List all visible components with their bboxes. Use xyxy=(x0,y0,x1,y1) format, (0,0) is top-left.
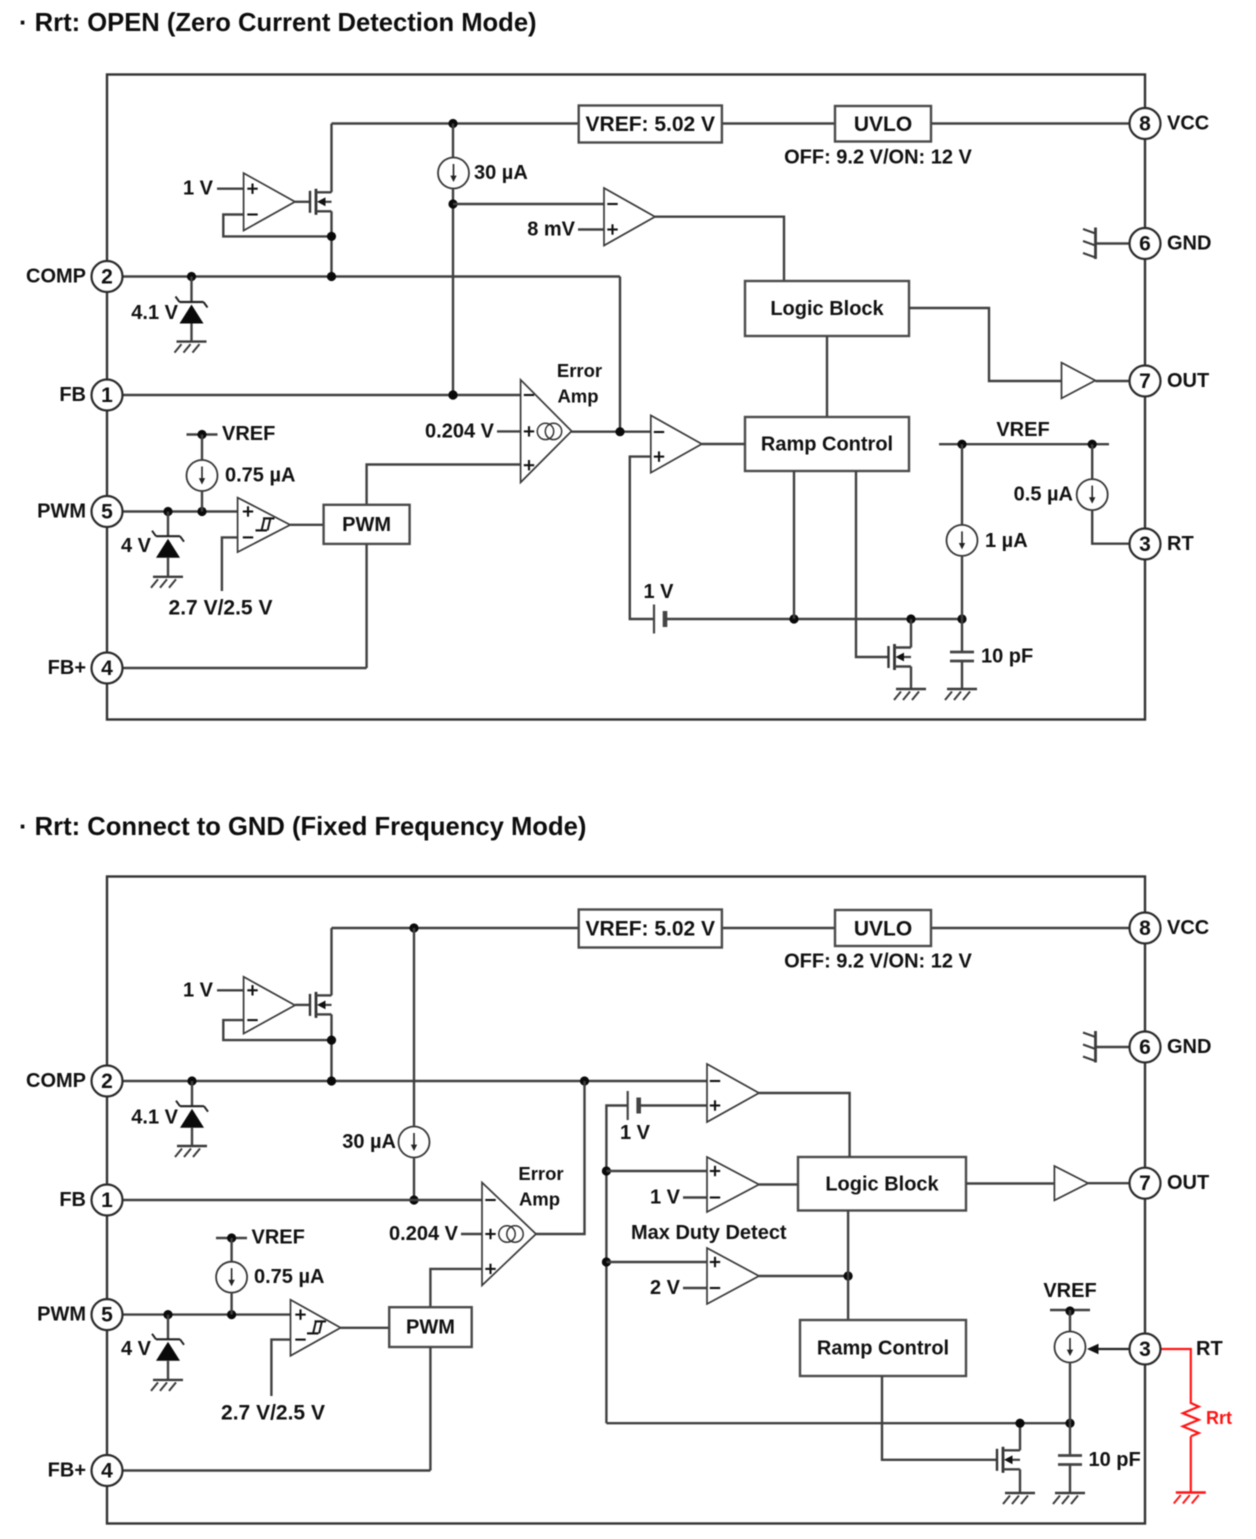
svg-text:2: 2 xyxy=(101,266,113,289)
svg-text:5: 5 xyxy=(101,1304,113,1327)
svg-text:PWM: PWM xyxy=(37,1304,86,1326)
svg-text:4 V: 4 V xyxy=(121,535,152,557)
svg-text:0.204 V: 0.204 V xyxy=(389,1223,459,1245)
svg-text:2.7 V/2.5 V: 2.7 V/2.5 V xyxy=(221,1402,325,1425)
svg-text:1 V: 1 V xyxy=(650,1187,681,1209)
svg-text:PWM: PWM xyxy=(406,1317,455,1339)
svg-text:3: 3 xyxy=(1139,533,1151,556)
svg-text:Amp: Amp xyxy=(519,1189,560,1210)
svg-text:VCC: VCC xyxy=(1167,113,1209,135)
svg-text:2: 2 xyxy=(101,1070,113,1093)
svg-text:OFF: 9.2 V/ON: 12 V: OFF: 9.2 V/ON: 12 V xyxy=(784,951,972,973)
svg-text:FB+: FB+ xyxy=(48,657,86,679)
svg-text:· Rrt: Connect to GND (Fixed F: · Rrt: Connect to GND (Fixed Frequency M… xyxy=(19,813,586,841)
svg-text:0.5 µA: 0.5 µA xyxy=(1014,484,1073,506)
svg-text:FB: FB xyxy=(59,1189,86,1211)
svg-text:6: 6 xyxy=(1139,1036,1151,1059)
svg-text:Logic Block: Logic Block xyxy=(770,298,884,320)
svg-text:COMP: COMP xyxy=(26,266,86,288)
svg-text:4: 4 xyxy=(101,1460,113,1483)
svg-text:10 pF: 10 pF xyxy=(1089,1449,1141,1471)
svg-text:8: 8 xyxy=(1139,113,1151,136)
svg-text:VCC: VCC xyxy=(1167,917,1209,939)
svg-text:4: 4 xyxy=(101,657,113,680)
svg-text:FB+: FB+ xyxy=(48,1460,86,1482)
svg-text:1 V: 1 V xyxy=(183,178,214,200)
svg-text:6: 6 xyxy=(1139,233,1151,256)
svg-text:VREF: VREF xyxy=(252,1227,305,1249)
svg-text:OFF: 9.2 V/ON: 12 V: OFF: 9.2 V/ON: 12 V xyxy=(784,147,972,169)
svg-text:1: 1 xyxy=(101,384,113,407)
svg-text:VREF: 5.02 V: VREF: 5.02 V xyxy=(586,113,716,136)
svg-text:10 pF: 10 pF xyxy=(981,646,1033,668)
svg-text:30 µA: 30 µA xyxy=(342,1131,396,1153)
svg-text:Logic Block: Logic Block xyxy=(825,1174,939,1196)
svg-text:GND: GND xyxy=(1167,1036,1211,1058)
svg-text:8 mV: 8 mV xyxy=(527,219,575,241)
svg-text:VREF: VREF xyxy=(222,423,275,445)
svg-text:VREF: 5.02 V: VREF: 5.02 V xyxy=(586,918,716,941)
svg-text:UVLO: UVLO xyxy=(854,113,912,136)
svg-text:Error: Error xyxy=(518,1163,563,1184)
svg-text:Amp: Amp xyxy=(557,386,598,407)
svg-text:OUT: OUT xyxy=(1167,1172,1209,1194)
svg-text:3: 3 xyxy=(1139,1338,1151,1361)
svg-text:1 V: 1 V xyxy=(183,979,214,1001)
svg-text:FB: FB xyxy=(59,384,86,406)
svg-text:8: 8 xyxy=(1139,917,1151,940)
svg-text:COMP: COMP xyxy=(26,1070,86,1092)
svg-text:7: 7 xyxy=(1139,1172,1151,1195)
svg-text:1 V: 1 V xyxy=(620,1122,651,1144)
svg-text:Error: Error xyxy=(557,360,602,381)
svg-text:0.204 V: 0.204 V xyxy=(425,420,495,442)
svg-text:Ramp Control: Ramp Control xyxy=(761,434,893,456)
svg-text:1 V: 1 V xyxy=(643,581,674,603)
svg-text:· Rrt: OPEN (Zero Current Dete: · Rrt: OPEN (Zero Current Detection Mode… xyxy=(19,9,537,37)
svg-text:4 V: 4 V xyxy=(121,1338,152,1360)
svg-text:UVLO: UVLO xyxy=(854,918,912,941)
svg-text:Ramp Control: Ramp Control xyxy=(817,1338,949,1360)
svg-text:PWM: PWM xyxy=(342,514,391,536)
svg-text:30 µA: 30 µA xyxy=(474,162,528,184)
svg-text:VREF: VREF xyxy=(996,419,1049,441)
svg-text:0.75 µA: 0.75 µA xyxy=(225,465,295,487)
svg-text:PWM: PWM xyxy=(37,501,86,523)
svg-text:VREF: VREF xyxy=(1043,1280,1096,1302)
svg-text:2 V: 2 V xyxy=(650,1277,681,1299)
svg-text:2.7 V/2.5 V: 2.7 V/2.5 V xyxy=(169,597,273,620)
svg-text:OUT: OUT xyxy=(1167,370,1209,392)
svg-text:GND: GND xyxy=(1167,233,1211,255)
svg-text:7: 7 xyxy=(1139,370,1151,393)
svg-text:Max Duty Detect: Max Duty Detect xyxy=(631,1222,787,1244)
svg-text:0.75 µA: 0.75 µA xyxy=(254,1266,324,1288)
svg-text:RT: RT xyxy=(1167,533,1194,555)
svg-text:5: 5 xyxy=(101,501,113,524)
svg-text:1: 1 xyxy=(101,1189,113,1212)
svg-text:Rrt: Rrt xyxy=(1206,1408,1232,1428)
svg-text:RT: RT xyxy=(1196,1338,1223,1360)
svg-text:4.1 V: 4.1 V xyxy=(131,1107,178,1129)
svg-text:1 µA: 1 µA xyxy=(985,530,1028,552)
svg-text:4.1 V: 4.1 V xyxy=(131,302,178,324)
